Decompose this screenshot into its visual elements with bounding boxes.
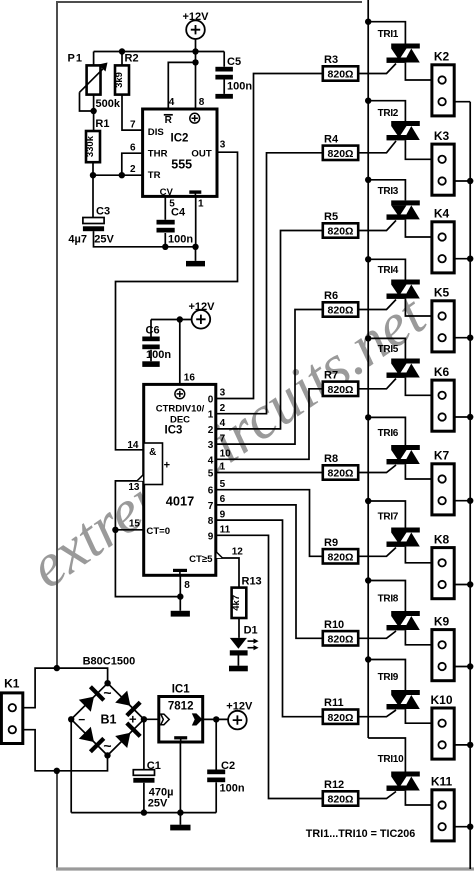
svg-text:K10: K10 — [430, 693, 452, 707]
svg-text:THR: THR — [148, 148, 168, 159]
svg-text:+12V: +12V — [189, 301, 216, 313]
svg-text:820Ω: 820Ω — [328, 468, 354, 480]
svg-text:P1: P1 — [68, 53, 83, 65]
svg-text:D1: D1 — [244, 624, 258, 636]
svg-text:TRI10: TRI10 — [378, 754, 404, 765]
svg-text:R10: R10 — [324, 619, 344, 631]
svg-text:B80C1500: B80C1500 — [83, 656, 136, 668]
svg-text:820Ω: 820Ω — [328, 794, 354, 806]
svg-text:IC2: IC2 — [171, 133, 189, 145]
svg-text:100n: 100n — [146, 349, 171, 361]
svg-text:TRI9: TRI9 — [378, 672, 399, 683]
svg-text:DIS: DIS — [148, 127, 165, 138]
svg-text:R5: R5 — [324, 211, 338, 223]
svg-text:11: 11 — [220, 525, 231, 536]
svg-text:9: 9 — [208, 531, 214, 542]
svg-text:820Ω: 820Ω — [328, 226, 354, 238]
svg-text:820Ω: 820Ω — [328, 633, 354, 645]
svg-text:6: 6 — [220, 494, 226, 505]
svg-text:R13: R13 — [242, 575, 262, 587]
svg-text:1: 1 — [208, 410, 214, 421]
svg-text:K5: K5 — [434, 286, 450, 300]
svg-text:CTRDIV10/: CTRDIV10/ — [156, 404, 205, 415]
svg-text:K6: K6 — [434, 365, 450, 379]
svg-text:R12: R12 — [324, 779, 344, 791]
svg-text:4: 4 — [208, 455, 214, 466]
svg-text:R7: R7 — [324, 369, 338, 381]
svg-text:R2: R2 — [125, 53, 139, 65]
svg-text:5: 5 — [220, 479, 226, 490]
svg-text:4µ7: 4µ7 — [68, 233, 87, 245]
svg-text:K8: K8 — [434, 533, 450, 547]
svg-text:C2: C2 — [221, 760, 235, 772]
svg-text:3: 3 — [220, 140, 226, 151]
svg-text:5: 5 — [208, 469, 214, 480]
svg-text:7: 7 — [208, 501, 214, 512]
svg-text:K7: K7 — [434, 449, 450, 463]
svg-text:R6: R6 — [324, 290, 338, 302]
svg-text:4: 4 — [169, 97, 175, 108]
svg-text:R3: R3 — [324, 54, 338, 66]
svg-text:0: 0 — [208, 395, 214, 406]
svg-text:1: 1 — [220, 462, 226, 473]
svg-text:K3: K3 — [434, 129, 450, 143]
svg-text:R11: R11 — [324, 697, 344, 709]
svg-text:6: 6 — [208, 486, 214, 497]
svg-text:12: 12 — [232, 546, 244, 557]
svg-text:K11: K11 — [431, 775, 453, 789]
svg-text:−: − — [78, 712, 85, 726]
svg-text:TRI6: TRI6 — [378, 428, 399, 439]
svg-text:+: + — [164, 460, 170, 472]
svg-text:CT≥5: CT≥5 — [189, 554, 213, 565]
svg-text:6: 6 — [130, 142, 136, 153]
svg-text:2: 2 — [208, 425, 214, 436]
svg-text:9: 9 — [220, 509, 226, 520]
svg-text:1: 1 — [198, 199, 204, 210]
svg-text:13: 13 — [128, 482, 140, 493]
svg-text:IC3: IC3 — [165, 425, 183, 437]
svg-text:TRI4: TRI4 — [378, 265, 399, 276]
svg-text:&: & — [149, 447, 156, 458]
svg-text:R9: R9 — [324, 537, 338, 549]
svg-text:500k: 500k — [96, 98, 121, 110]
svg-text:+12V: +12V — [183, 11, 210, 23]
svg-text:7: 7 — [220, 433, 226, 444]
svg-text:8: 8 — [208, 516, 214, 527]
svg-text:7: 7 — [130, 119, 136, 130]
svg-text:TRI3: TRI3 — [378, 186, 399, 197]
svg-text:K9: K9 — [434, 615, 450, 629]
svg-text:IC1: IC1 — [172, 684, 191, 696]
svg-text:C5: C5 — [227, 56, 241, 68]
svg-text:8: 8 — [199, 97, 205, 108]
svg-text:C3: C3 — [96, 206, 110, 218]
svg-text:TR: TR — [148, 170, 161, 181]
svg-text:+12V: +12V — [226, 701, 253, 713]
svg-text:5: 5 — [169, 199, 175, 210]
svg-text:820Ω: 820Ω — [328, 551, 354, 563]
svg-text:25V: 25V — [94, 233, 114, 245]
svg-text:3: 3 — [208, 440, 214, 451]
svg-text:2: 2 — [130, 164, 136, 175]
svg-text:TRI1...TRI10 = TIC206: TRI1...TRI10 = TIC206 — [306, 828, 416, 840]
svg-text:820Ω: 820Ω — [328, 712, 354, 724]
svg-text:4017: 4017 — [166, 494, 194, 509]
svg-text:CT=0: CT=0 — [146, 526, 170, 537]
svg-text:14: 14 — [127, 440, 139, 451]
svg-text:100n: 100n — [168, 234, 193, 246]
svg-text:3k9: 3k9 — [114, 72, 125, 88]
svg-text:820Ω: 820Ω — [328, 384, 354, 396]
svg-text:330k: 330k — [85, 135, 96, 157]
svg-text:3: 3 — [220, 388, 226, 399]
svg-text:8: 8 — [184, 580, 190, 591]
svg-text:820Ω: 820Ω — [328, 69, 354, 81]
svg-text:R: R — [165, 115, 173, 126]
svg-text:25V: 25V — [148, 797, 168, 809]
svg-text:555: 555 — [171, 157, 192, 171]
svg-text:R1: R1 — [95, 118, 109, 130]
svg-text:820Ω: 820Ω — [328, 148, 354, 160]
svg-text:R4: R4 — [324, 133, 339, 145]
svg-text:4: 4 — [220, 418, 226, 429]
svg-text:TRI7: TRI7 — [378, 512, 399, 523]
svg-text:820Ω: 820Ω — [328, 305, 354, 317]
svg-text:16: 16 — [184, 373, 196, 384]
svg-text:K2: K2 — [434, 50, 450, 64]
svg-text:TRI1: TRI1 — [378, 29, 399, 40]
svg-text:OUT: OUT — [191, 148, 211, 159]
svg-text:15: 15 — [129, 519, 141, 530]
svg-text:~: ~ — [103, 685, 111, 701]
svg-text:10: 10 — [220, 449, 232, 460]
svg-text:2: 2 — [220, 403, 226, 414]
svg-text:~: ~ — [103, 738, 111, 754]
svg-text:TRI8: TRI8 — [378, 594, 399, 605]
svg-text:+: + — [129, 711, 137, 726]
svg-text:TRI5: TRI5 — [378, 344, 399, 355]
svg-text:100n: 100n — [227, 81, 252, 93]
svg-text:CV: CV — [160, 187, 174, 198]
svg-text:K1: K1 — [4, 676, 20, 690]
svg-text:C1: C1 — [147, 760, 161, 772]
svg-text:100n: 100n — [220, 783, 245, 795]
svg-text:K4: K4 — [434, 207, 450, 221]
svg-text:TRI2: TRI2 — [378, 108, 399, 119]
svg-text:B1: B1 — [101, 713, 117, 727]
svg-text:7812: 7812 — [168, 700, 194, 712]
svg-text:4k7: 4k7 — [231, 595, 242, 611]
svg-text:C6: C6 — [146, 325, 160, 337]
svg-text:R8: R8 — [324, 453, 338, 465]
